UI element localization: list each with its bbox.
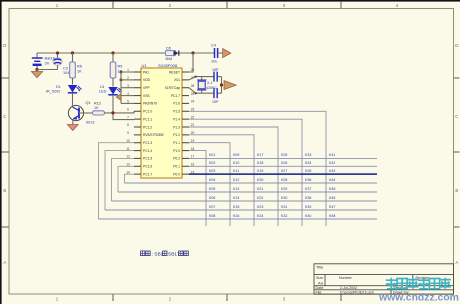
- capacitor C3: [57, 53, 59, 58]
- svg-text:K46: K46: [329, 196, 335, 200]
- wire: [112, 53, 114, 62]
- svg-text:K01: K01: [209, 153, 215, 157]
- pin 11 (left): [134, 150, 141, 152]
- svg-text:K11: K11: [233, 169, 239, 173]
- svg-text:Size: Size: [316, 276, 323, 280]
- wire stubs to pins 2-5: [121, 79, 134, 81]
- pin 7 (left): [134, 118, 141, 120]
- wire: matrix column 3 from pin: [189, 135, 254, 226]
- svg-text:VPP: VPP: [143, 86, 150, 90]
- svg-text:2: 2: [127, 76, 129, 80]
- svg-text:K15: K15: [233, 205, 239, 209]
- svg-text:1N4: 1N4: [165, 57, 172, 61]
- battery Bat1b 3V: [36, 53, 38, 58]
- LED L5: [108, 87, 117, 95]
- svg-text:K29: K29: [281, 187, 287, 191]
- svg-text:K45: K45: [329, 187, 335, 191]
- pin 17 (right): [182, 157, 189, 159]
- pin 21 (right): [182, 126, 189, 128]
- capacitor C4: [214, 48, 216, 58]
- crystal X1: [201, 77, 203, 80]
- svg-text:A4: A4: [318, 280, 324, 285]
- svg-text:K18: K18: [257, 161, 263, 165]
- wire: matrix column 4 from pin: [189, 127, 278, 226]
- pin 27 (right): [182, 79, 189, 81]
- svg-text:K34: K34: [305, 161, 311, 165]
- pin 23 (right): [182, 110, 189, 112]
- svg-text:K37: K37: [305, 187, 311, 191]
- svg-text:D5: D5: [166, 46, 171, 50]
- svg-text:K05: K05: [209, 187, 215, 191]
- svg-text:PC1.7: PC1.7: [171, 94, 180, 98]
- svg-text:LED: LED: [99, 90, 107, 94]
- svg-text:K03: K03: [209, 169, 215, 173]
- svg-text:K21: K21: [257, 187, 263, 191]
- op chip U1 body: [141, 68, 182, 178]
- pin 1 (left): [134, 71, 141, 73]
- wire: [72, 93, 74, 106]
- pin 15 (right): [182, 173, 189, 175]
- svg-text:24: 24: [191, 100, 195, 104]
- pin 2 (left): [134, 79, 141, 81]
- zone ticks top: [112, 2, 114, 9]
- svg-text:K48: K48: [329, 214, 335, 218]
- svg-text:IR_5202: IR_5202: [46, 90, 60, 94]
- svg-text:D:\prog\PRJEX1\.sch: D:\prog\PRJEX1\.sch: [340, 291, 374, 295]
- svg-text:K33: K33: [305, 153, 311, 157]
- svg-text:SX28P008: SX28P008: [158, 63, 178, 68]
- pin 9 (left): [134, 134, 141, 136]
- note text: [141, 251, 145, 256]
- transistor Q1 9013: [68, 105, 83, 120]
- svg-text:www.cndzz.com: www.cndzz.com: [378, 293, 459, 304]
- wire: matrix column 6 from pin: [189, 111, 326, 226]
- capacitor C2 (bottom): [213, 88, 215, 98]
- wire: battery minus to C3: [37, 69, 58, 71]
- wire: RESET pin to rail: [189, 53, 193, 72]
- diode D5 on rail: [166, 51, 176, 56]
- wire: caps common: [221, 77, 223, 94]
- svg-text:3V: 3V: [45, 61, 50, 66]
- wire: matrix column 1 from pin: [189, 151, 206, 226]
- svg-text:7: 7: [127, 115, 129, 119]
- svg-text:K19: K19: [257, 169, 263, 173]
- svg-text:K09: K09: [233, 153, 239, 157]
- svg-text:RV3/STROBE: RV3/STROBE: [143, 133, 165, 137]
- svg-text:9013: 9013: [86, 121, 94, 125]
- svg-text:PC1.3: PC1.3: [143, 141, 152, 145]
- ground (battery): [36, 70, 38, 72]
- pin 5 (left): [134, 102, 141, 104]
- pin 10 (left): [134, 142, 141, 144]
- svg-text:K24: K24: [257, 214, 263, 218]
- svg-text:A: A: [455, 260, 458, 265]
- pin 16 (right): [182, 165, 189, 167]
- svg-text:B: B: [455, 188, 458, 193]
- svg-text:P0.1: P0.1: [173, 165, 180, 169]
- svg-text:PA1: PA1: [143, 70, 149, 74]
- svg-text:K26: K26: [281, 161, 287, 165]
- pin 24 (right): [182, 102, 189, 104]
- svg-text:U1: U1: [142, 63, 148, 68]
- LED D1 IR_5202: [68, 85, 77, 93]
- svg-text:D: D: [455, 43, 458, 48]
- svg-text:K44: K44: [329, 178, 335, 182]
- screenshot black edges: [0, 0, 460, 2]
- svg-text:L5: L5: [100, 85, 104, 89]
- svg-text:VDD: VDD: [143, 78, 151, 82]
- wire: [72, 53, 74, 62]
- svg-text:6: 6: [127, 107, 129, 111]
- svg-text:PA3/INT0: PA3/INT0: [143, 102, 157, 106]
- node: battery minus junction: [35, 68, 38, 71]
- svg-text:P1.6: P1.6: [173, 102, 180, 106]
- svg-text:1K: 1K: [77, 70, 82, 74]
- svg-text:D: D: [3, 43, 6, 48]
- node: rail to R6: [71, 51, 74, 54]
- svg-text:R6: R6: [77, 65, 82, 69]
- svg-text:9: 9: [127, 131, 129, 135]
- pin 3 (left): [134, 87, 141, 89]
- wire: +3V top rail: [37, 52, 166, 54]
- svg-text:X01: X01: [174, 78, 180, 82]
- svg-text:K13: K13: [233, 187, 239, 191]
- svg-text:P1.0: P1.0: [173, 149, 180, 153]
- svg-text:K22: K22: [257, 196, 263, 200]
- svg-text:B: B: [3, 188, 6, 193]
- svg-text:PC1.6: PC1.6: [143, 165, 152, 169]
- svg-text:P0.2: P0.2: [173, 157, 180, 161]
- svg-text:P1.1: P1.1: [173, 141, 180, 145]
- pin 14 (left): [134, 173, 141, 175]
- svg-text:3: 3: [127, 84, 129, 88]
- svg-text:: SB1: : SB1: [152, 252, 164, 258]
- svg-text:C4: C4: [211, 43, 216, 47]
- wire: matrix row 3 (thick bus): [189, 173, 377, 175]
- wire: XTAL bottom: [189, 88, 214, 94]
- svg-text:K08: K08: [209, 214, 215, 218]
- svg-text:P1.3: P1.3: [173, 125, 180, 129]
- pin 13 (left): [134, 165, 141, 167]
- node: rail/reset junction: [191, 51, 194, 54]
- svg-text:K30: K30: [281, 196, 287, 200]
- wire: matrix row 2: [189, 165, 377, 167]
- svg-text:PC1.7: PC1.7: [143, 172, 152, 176]
- svg-text:K02: K02: [209, 161, 215, 165]
- svg-text:PC1.1: PC1.1: [143, 117, 152, 121]
- svg-text:P1.2: P1.2: [173, 133, 180, 137]
- wire: matrix row 1: [189, 157, 377, 159]
- svg-text:15P: 15P: [212, 100, 219, 104]
- svg-text:K35: K35: [305, 169, 311, 173]
- svg-text:K16: K16: [233, 214, 239, 218]
- svg-text:R5: R5: [118, 65, 123, 69]
- svg-text:K28: K28: [281, 178, 287, 182]
- wire: matrix row 4 (from left pin 14): [125, 174, 135, 183]
- svg-text:C: C: [455, 114, 458, 119]
- ground (arrow right at C4): [223, 49, 231, 58]
- svg-text:K10: K10: [233, 161, 239, 165]
- svg-text:K43: K43: [329, 169, 335, 173]
- title block: [314, 264, 454, 294]
- node: pin tie junctions: [120, 71, 123, 74]
- wire: matrix column 5 from pin: [189, 119, 302, 226]
- wire: XTAL top: [189, 77, 214, 80]
- svg-text:C: C: [3, 114, 6, 119]
- node: rail to R5: [111, 51, 114, 54]
- svg-text:P1.5: P1.5: [173, 110, 180, 114]
- svg-text:R12: R12: [94, 102, 101, 106]
- wire: [112, 78, 114, 87]
- svg-text:K32: K32: [281, 214, 287, 218]
- svg-text:PC1.2: PC1.2: [143, 125, 152, 129]
- pin 20 (right): [182, 134, 189, 136]
- svg-text:PC1.0: PC1.0: [143, 110, 152, 114]
- zone ticks bottom: [112, 294, 114, 301]
- svg-text:K20: K20: [257, 178, 263, 182]
- wire: vertical tie of pins 1-5: [121, 72, 134, 103]
- pin 19 (right): [182, 142, 189, 144]
- svg-text:K38: K38: [305, 196, 311, 200]
- watermark: site logo glyphs: [386, 278, 451, 289]
- wire: matrix row 5 (from left pin 13): [118, 166, 134, 192]
- svg-text:26: 26: [191, 84, 195, 88]
- svg-text:430KC: 430KC: [206, 86, 217, 90]
- wire: LED L5 to pin 7: [113, 95, 134, 120]
- svg-text:Title: Title: [316, 265, 324, 270]
- zone ticks left: [2, 77, 9, 79]
- svg-text:A: A: [3, 260, 6, 265]
- svg-text:K47: K47: [329, 205, 335, 209]
- svg-text:K25: K25: [281, 153, 287, 157]
- capacitor C1 (top): [213, 72, 215, 82]
- svg-text:K41: K41: [329, 153, 335, 157]
- svg-text:X.1: X.1: [207, 81, 212, 85]
- svg-text:Q1: Q1: [86, 101, 91, 105]
- svg-text:4: 4: [127, 92, 129, 96]
- ground (arrow right at crystal): [224, 81, 236, 90]
- pin 18 (right): [182, 150, 189, 152]
- resistor R6: [70, 62, 76, 78]
- svg-text:File:: File:: [316, 291, 323, 295]
- svg-text:K36: K36: [305, 178, 311, 182]
- pin 28 (right): [182, 71, 189, 73]
- ground (Q1 emitter): [67, 125, 78, 131]
- svg-text:K12: K12: [233, 178, 239, 182]
- ground (arrow left, VSS): [116, 94, 121, 100]
- wire: [72, 78, 74, 85]
- svg-text:RESET: RESET: [169, 70, 180, 74]
- zone ticks right: [454, 77, 460, 79]
- svg-text:D1: D1: [56, 85, 61, 89]
- svg-text:K04: K04: [209, 178, 215, 182]
- svg-text:PC1.4: PC1.4: [143, 149, 152, 153]
- pin 12 (left): [134, 157, 141, 159]
- svg-text:K39: K39: [305, 205, 311, 209]
- wire: matrix row 8 (from left pin 10): [99, 143, 135, 219]
- svg-text:X1R/TCap: X1R/TCap: [165, 86, 181, 90]
- pin 25 (right): [182, 95, 189, 97]
- wire: [72, 119, 74, 125]
- wire: matrix column 2 from pin: [189, 143, 230, 226]
- pin 4 (left): [134, 95, 141, 97]
- wire: matrix row 7 (from left pin 11): [105, 151, 134, 210]
- svg-text:K14: K14: [233, 196, 239, 200]
- resistor R5: [110, 62, 116, 78]
- svg-text:10u: 10u: [211, 60, 217, 64]
- svg-text:P0.0: P0.0: [173, 172, 180, 176]
- pin 26 (right): [182, 87, 189, 89]
- svg-text:1K: 1K: [94, 106, 99, 110]
- pin 6 (left): [134, 110, 141, 112]
- svg-text:5: 5: [127, 100, 129, 104]
- svg-text:15P: 15P: [212, 68, 219, 72]
- svg-text:K23: K23: [257, 205, 263, 209]
- svg-text:K27: K27: [281, 169, 287, 173]
- svg-text:K17: K17: [257, 153, 263, 157]
- svg-text:8: 8: [127, 123, 129, 127]
- wire: matrix row 6 (from left pin 12): [112, 158, 135, 201]
- svg-text:K42: K42: [329, 161, 335, 165]
- resistor R12 (base): [79, 112, 93, 114]
- svg-text:PC1.5: PC1.5: [143, 157, 152, 161]
- svg-text:VSS: VSS: [143, 94, 150, 98]
- pin 8 (left): [134, 126, 141, 128]
- pin 22 (right): [182, 118, 189, 120]
- svg-text:P1.4: P1.4: [173, 117, 180, 121]
- svg-text:K07: K07: [209, 205, 215, 209]
- svg-text:Number: Number: [339, 276, 353, 280]
- svg-text:1: 1: [127, 68, 129, 72]
- svg-text:K31: K31: [281, 205, 287, 209]
- svg-text:K40: K40: [305, 214, 311, 218]
- svg-text:K06: K06: [209, 196, 215, 200]
- wire: R12 to U1 pin6: [105, 111, 135, 113]
